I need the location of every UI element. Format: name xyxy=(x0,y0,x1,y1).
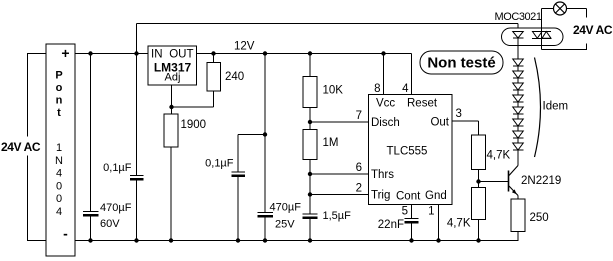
capacitor 0,1µF input xyxy=(130,176,144,180)
svg-text:+: + xyxy=(61,45,69,61)
capacitor 0,1µF decoupling xyxy=(231,172,245,176)
label 250 xyxy=(530,212,549,224)
label 1M xyxy=(323,137,339,149)
node 12V / R240 xyxy=(211,51,215,55)
bridge label 1N4004 xyxy=(55,142,63,218)
wire C0,1 #2 to bottom rail xyxy=(237,177,239,240)
pin label Out xyxy=(430,117,449,129)
svg-text:0,1µF: 0,1µF xyxy=(205,158,234,170)
svg-text:t: t xyxy=(57,107,61,119)
label Idem xyxy=(543,101,569,113)
node raw DC+ / top rail xyxy=(134,51,138,55)
label 12V xyxy=(234,41,255,53)
svg-text:TLC555: TLC555 xyxy=(387,146,428,158)
svg-text:Disch: Disch xyxy=(371,117,400,129)
svg-text:470µF: 470µF xyxy=(270,202,302,214)
wire bottom rail (DC-) xyxy=(75,240,519,242)
svg-text:24V AC: 24V AC xyxy=(573,23,613,37)
wire AC input left vertical (upper segment) xyxy=(27,54,29,137)
node C1,5 bottom xyxy=(308,238,312,242)
wire Disch pin 7 xyxy=(310,121,369,123)
Idem bracket xyxy=(535,58,541,158)
resistor 4,7K upper xyxy=(472,135,486,170)
pin label Gnd xyxy=(425,190,447,202)
capacitor 1,5µF xyxy=(303,214,318,218)
pin label Disch xyxy=(371,117,400,129)
IC TLC555 body xyxy=(369,95,453,205)
svg-text:Adj: Adj xyxy=(165,72,181,84)
transistor collector xyxy=(509,151,518,176)
wire Adj node to 240 bottom xyxy=(172,91,214,107)
node Thrs junction xyxy=(308,172,312,176)
regulator LM317 body xyxy=(148,46,197,85)
svg-text:Out: Out xyxy=(430,117,449,129)
LM317 label xyxy=(154,61,192,75)
node 22nF bottom xyxy=(409,238,413,242)
svg-text:24V AC: 24V AC xyxy=(1,140,41,154)
wire triac top to lamp xyxy=(541,9,543,32)
label 22nF xyxy=(378,219,404,231)
svg-text:250: 250 xyxy=(530,212,549,224)
bridge plus terminal xyxy=(61,45,69,61)
label 4,7K upper xyxy=(487,150,511,162)
capacitor 470µF 25V xyxy=(257,213,273,217)
wire AC source stub xyxy=(586,44,588,51)
svg-text:470µF: 470µF xyxy=(100,202,132,214)
wire Vcc pin 8 lead xyxy=(383,54,385,95)
svg-text:1: 1 xyxy=(428,206,434,218)
svg-text:0: 0 xyxy=(56,181,62,193)
node branch split xyxy=(263,132,267,136)
LM317 pin Adj xyxy=(165,72,181,84)
svg-text:5: 5 xyxy=(402,206,408,218)
pin number 1 xyxy=(428,206,434,218)
svg-text:240: 240 xyxy=(225,71,244,83)
label 4,7K lower xyxy=(447,218,471,230)
node 10K/1M/Disch xyxy=(308,120,312,124)
node 12V / Vcc xyxy=(381,51,385,55)
LM317 pin OUT xyxy=(169,49,193,61)
svg-text:Thrs: Thrs xyxy=(371,169,394,181)
bridge rectifier Pont 1N4004 body xyxy=(46,44,75,256)
opto triac xyxy=(532,32,551,39)
wire 250 to bottom rail xyxy=(517,232,520,242)
svg-text:2N2219: 2N2219 xyxy=(521,175,561,187)
svg-text:22nF: 22nF xyxy=(378,219,404,231)
wire triac through body xyxy=(541,32,543,46)
wire top rail into opto LED xyxy=(517,24,519,32)
wire C470/60 to bottom rail xyxy=(90,217,92,241)
label 1900 xyxy=(181,119,207,131)
wire C0,1 #1 to bottom rail xyxy=(136,181,138,241)
wire LM317 Adj lead xyxy=(171,85,173,114)
label 1,5µF xyxy=(323,210,352,222)
pin number 2 xyxy=(356,183,362,195)
lamp xyxy=(554,2,567,15)
wire branch to C0,1 #2 xyxy=(238,135,265,173)
svg-text:OUT: OUT xyxy=(169,49,193,61)
wire AC input to bridge top xyxy=(27,53,46,55)
wire C1,5 to bottom rail xyxy=(309,219,311,240)
wire top-rail corner down through C0,1 #1 xyxy=(136,24,138,177)
LM317 pin IN xyxy=(151,49,163,61)
svg-text:3: 3 xyxy=(456,108,462,120)
wire opto LED cathode xyxy=(517,38,519,46)
wire triac bottom xyxy=(542,46,587,50)
pin number 8 xyxy=(374,83,380,95)
resistor 10K xyxy=(303,77,317,108)
wire 12V rail xyxy=(196,53,412,55)
svg-text:4,7K: 4,7K xyxy=(447,218,471,230)
wire 10K to 1M xyxy=(309,108,311,130)
resistor 4,7K lower xyxy=(472,188,486,220)
pin number 6 xyxy=(356,162,362,174)
node 12V / 470-25 branch xyxy=(263,51,267,55)
wire 4,7K lower to bottom rail xyxy=(478,220,480,241)
label 470µF (60V cap) xyxy=(100,202,132,214)
node 4,7K bottom xyxy=(476,238,480,242)
wire lamp right xyxy=(567,9,587,18)
svg-text:4: 4 xyxy=(402,83,409,95)
svg-text:6: 6 xyxy=(356,162,362,174)
svg-text:-: - xyxy=(63,226,68,242)
label 0,1µF (input cap) xyxy=(103,162,132,174)
LED chain (8 diodes) xyxy=(513,46,524,151)
pin label Cont xyxy=(396,191,421,203)
transistor emitter xyxy=(509,186,518,196)
optocoupler MOC3021 body xyxy=(502,28,564,46)
svg-text:25V: 25V xyxy=(275,219,295,231)
svg-text:4,7K: 4,7K xyxy=(487,150,511,162)
svg-text:Idem: Idem xyxy=(543,101,569,113)
svg-text:0: 0 xyxy=(56,193,62,205)
bridge label Pont xyxy=(55,70,62,120)
wire Thrs pin 6 xyxy=(310,173,369,175)
wire C470/25 to bottom rail xyxy=(264,218,266,241)
label 24V AC input xyxy=(1,140,41,154)
svg-text:Non testé: Non testé xyxy=(427,55,495,72)
pin label Vcc xyxy=(376,98,395,110)
svg-text:2: 2 xyxy=(356,183,362,195)
pin label Thrs xyxy=(371,169,394,181)
resistor 240 xyxy=(207,63,221,92)
svg-text:4: 4 xyxy=(56,206,62,218)
svg-text:IN: IN xyxy=(151,49,163,61)
svg-text:1,5µF: 1,5µF xyxy=(323,210,352,222)
resistor 1900 xyxy=(164,114,178,147)
svg-text:10K: 10K xyxy=(323,85,344,97)
label 240 xyxy=(225,71,244,83)
node C0,1-1 bottom xyxy=(134,238,138,242)
label MOC3021 xyxy=(495,11,542,23)
svg-text:4: 4 xyxy=(56,168,62,180)
pin number 5 xyxy=(402,206,408,218)
node C470-25 bottom xyxy=(263,238,267,242)
svg-text:0,1µF: 0,1µF xyxy=(103,162,132,174)
wire AC input left vertical (lower segment) xyxy=(27,156,29,241)
wire bridge+ down to C470/60 xyxy=(90,54,92,212)
pin number 7 xyxy=(356,110,362,122)
svg-text:n: n xyxy=(56,95,63,107)
svg-text:12V: 12V xyxy=(234,41,255,53)
wire 12V down to caps branch xyxy=(264,54,266,213)
wire raw DC+ top rail xyxy=(137,23,519,25)
wire 1900 to bottom rail xyxy=(170,147,172,241)
wire emitter to 250 xyxy=(517,196,519,200)
opto LED xyxy=(513,32,524,39)
wire Out pin 3 xyxy=(452,121,479,135)
svg-text:Reset: Reset xyxy=(407,98,438,110)
svg-text:1M: 1M xyxy=(323,137,339,149)
pin number 3 xyxy=(456,108,462,120)
label 24V AC load xyxy=(573,23,613,37)
node C470-60 bottom xyxy=(88,238,92,242)
wire 1M down to 1,5µF xyxy=(309,160,311,215)
label 10K xyxy=(323,85,344,97)
capacitor 22nF xyxy=(405,219,419,223)
transistor 2N2219 base bar xyxy=(508,171,510,192)
svg-text:Vcc: Vcc xyxy=(376,98,395,110)
svg-text:o: o xyxy=(56,82,63,94)
label 60V xyxy=(100,218,120,230)
IC label TLC555 xyxy=(387,146,428,158)
node Gnd bottom xyxy=(436,238,440,242)
wire Reset pin 4 lead xyxy=(411,54,413,95)
pin label Reset xyxy=(407,98,438,110)
pin number 4 xyxy=(402,83,409,95)
wire lamp left xyxy=(542,8,554,10)
svg-text:MOC3021: MOC3021 xyxy=(495,11,542,23)
svg-text:Trig: Trig xyxy=(371,190,390,202)
node bridge+ / C470-60 xyxy=(88,51,92,55)
wire 240 top lead xyxy=(213,54,215,63)
node Trig junction xyxy=(308,192,312,196)
node C0,1-2 bottom xyxy=(236,238,240,242)
resistor 1M xyxy=(303,130,317,160)
svg-text:8: 8 xyxy=(374,83,380,95)
wire AC input to bridge bottom xyxy=(27,240,46,242)
node base junction xyxy=(476,179,480,183)
wire base xyxy=(479,181,509,183)
label 2N2219 xyxy=(521,175,561,187)
pin label Trig xyxy=(371,190,390,202)
wire 12V to 10K top xyxy=(309,54,311,77)
svg-text:60V: 60V xyxy=(100,218,120,230)
wire 22nF to bottom rail xyxy=(411,224,413,241)
svg-text:P: P xyxy=(55,70,62,82)
wire Gnd pin 1 lead xyxy=(438,205,440,241)
bridge minus terminal xyxy=(63,226,68,242)
annotation bubble Non testé xyxy=(420,51,503,74)
label 470µF (25V cap) xyxy=(270,202,302,214)
resistor 250 xyxy=(511,199,525,232)
label 25V xyxy=(275,219,295,231)
svg-text:Cont: Cont xyxy=(396,191,421,203)
node R1900 bottom xyxy=(169,238,173,242)
svg-text:1900: 1900 xyxy=(181,119,207,131)
node Adj / 240 / 1900 xyxy=(169,105,173,109)
svg-text:N: N xyxy=(55,155,63,167)
wire Trig pin 2 xyxy=(310,194,369,196)
wire 4,7K upper to node xyxy=(478,170,480,188)
wire Cont pin 5 lead xyxy=(411,205,413,219)
wire bridge+ to LM317 IN xyxy=(75,53,148,55)
node 12V / 10K xyxy=(308,51,312,55)
svg-text:Gnd: Gnd xyxy=(425,190,447,202)
svg-text:7: 7 xyxy=(356,110,362,122)
label 0,1µF (decoupling) xyxy=(205,158,234,170)
capacitor 470µF 60V xyxy=(83,212,99,216)
svg-text:1: 1 xyxy=(56,142,62,154)
